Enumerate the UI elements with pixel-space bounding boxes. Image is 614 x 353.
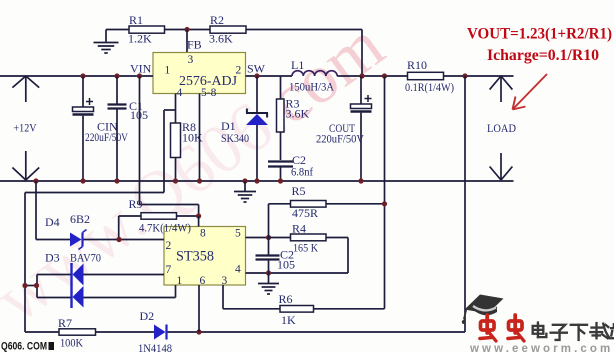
regulator U1 2576-ADJ — [153, 53, 246, 100]
svg-text:100K: 100K — [60, 336, 83, 350]
LOAD top arrow — [490, 76, 513, 102]
svg-text:1K: 1K — [281, 313, 296, 327]
resistor R8 — [171, 120, 204, 158]
wire R7 to D2 — [96, 331, 155, 333]
svg-text:D4: D4 — [45, 215, 60, 229]
wire +12V rail to VIN — [0, 75, 153, 77]
label LOAD — [487, 121, 516, 135]
svg-text:D3: D3 — [45, 251, 60, 265]
wire pin6 down — [198, 285, 200, 332]
wire ground to R1 — [106, 29, 129, 31]
resistor R3 — [277, 76, 310, 160]
capacitor C1 — [108, 76, 149, 181]
watermark Q606 — [1, 341, 54, 353]
svg-text:R4: R4 — [292, 222, 306, 236]
wire output sense line — [168, 76, 466, 332]
wire R1 to FB node — [165, 29, 211, 31]
wire pin5 — [246, 237, 269, 239]
node bus COUT bottom — [358, 178, 363, 183]
node sense branch top — [382, 73, 387, 78]
wire R4 loop — [269, 238, 349, 274]
wire R5 left — [269, 204, 291, 238]
wire R10 to LOAD — [444, 75, 514, 77]
resistor R9 — [129, 197, 192, 235]
diode D3 BAV70 — [45, 251, 101, 309]
capacitor COUT — [316, 76, 372, 181]
label FB — [187, 38, 202, 52]
svg-text:Q606. COM: Q606. COM — [1, 341, 47, 353]
svg-text:R10: R10 — [407, 58, 427, 72]
wire R8 to ground bus — [175, 158, 177, 182]
node bus D1 bottom — [254, 178, 259, 183]
svg-text:www.eeworm.com: www.eeworm.com — [469, 343, 613, 353]
wire pin8 supply branch — [163, 110, 165, 193]
svg-text:4.7K(1/4W): 4.7K(1/4W) — [139, 221, 191, 235]
node B pin4 — [266, 270, 271, 275]
wire D4 to pin2 — [84, 239, 165, 241]
svg-text:R6: R6 — [279, 292, 293, 306]
svg-text:165 K: 165 K — [293, 241, 318, 255]
node bus ground stub — [242, 178, 247, 183]
node bus CIN bottom — [80, 178, 85, 183]
svg-text:R5: R5 — [292, 184, 306, 198]
wire ground bus — [0, 180, 514, 182]
node D4 R9 junction — [116, 237, 121, 242]
wire D3 to pin1 — [84, 285, 176, 298]
wire bus to D4 — [36, 181, 70, 240]
svg-text:3.6K: 3.6K — [286, 107, 310, 121]
logo chongchong char1 — [480, 315, 496, 341]
wire pin4 stub — [164, 109, 176, 111]
op-amp U2 ST358 — [164, 227, 246, 288]
svg-text:1N4148: 1N4148 — [138, 341, 172, 353]
wire VIN to pin8 supply — [140, 76, 199, 216]
wire D3 left upper — [37, 275, 71, 298]
wire R9 right — [177, 215, 199, 217]
node bus +12V bottom — [33, 178, 38, 183]
svg-text:3.6K: 3.6K — [209, 32, 233, 46]
capacitor C2 snubber — [268, 153, 313, 181]
LOAD bottom arrow — [490, 153, 513, 180]
node D3 link right — [34, 283, 39, 288]
svg-text:1: 1 — [165, 65, 171, 77]
wire R5 right — [326, 203, 385, 205]
logo graduation cap — [462, 295, 504, 325]
ground (top-left) — [94, 30, 119, 54]
red pointer arrow — [513, 74, 548, 110]
logo site name — [533, 323, 614, 340]
svg-text:R1: R1 — [129, 13, 143, 27]
wire FB down to pin3 — [186, 30, 188, 54]
svg-text:L1: L1 — [291, 58, 304, 72]
node COUT top — [359, 73, 364, 78]
resistor R7 — [25, 316, 96, 350]
wire R2 to output node — [246, 30, 362, 77]
logo url — [469, 343, 613, 353]
svg-text:3: 3 — [188, 54, 194, 66]
resistor R2 — [209, 13, 246, 46]
svg-text:R9: R9 — [129, 197, 143, 211]
svg-text:6: 6 — [200, 275, 206, 287]
svg-text:0.1R(1/4W): 0.1R(1/4W) — [405, 80, 454, 94]
wire D3 link — [25, 285, 37, 287]
svg-text:R7: R7 — [58, 316, 72, 330]
watermark pink diagonal — [0, 7, 398, 338]
svg-text:1.2K: 1.2K — [128, 32, 152, 46]
wire pin4 down — [175, 94, 177, 124]
svg-text:1: 1 — [177, 275, 183, 287]
node C1 top — [114, 73, 119, 78]
wire pin3 down — [223, 285, 280, 309]
node bus pin5-8 bottom — [197, 178, 202, 183]
capacitor C2 105 — [256, 238, 296, 284]
wire R9 left — [119, 216, 141, 240]
label VIN — [130, 62, 152, 76]
svg-text:150uH/3A: 150uH/3A — [289, 80, 334, 94]
node output junction — [462, 73, 467, 78]
node R9 pin8 junction — [196, 213, 201, 218]
resistor R1 — [128, 13, 165, 46]
wire L1 to R10 — [337, 75, 407, 77]
svg-text:6.8nf: 6.8nf — [291, 165, 313, 179]
ground (middle) — [234, 181, 256, 202]
svg-text:105: 105 — [277, 258, 295, 272]
wire SW to L1 — [246, 75, 293, 77]
formula VOUT — [467, 26, 612, 43]
diode D2 1N4148 — [138, 309, 172, 353]
label +12V — [14, 121, 37, 135]
wire feedback line — [384, 76, 386, 309]
wire R6 right — [314, 308, 385, 310]
ground (below C2) — [258, 284, 279, 295]
svg-text:FB: FB — [187, 38, 202, 52]
svg-text:SW: SW — [247, 62, 266, 76]
node D3 link left — [22, 283, 27, 288]
wire pin5-8 to ground bus — [199, 94, 201, 182]
svg-text:220uF/50V: 220uF/50V — [316, 132, 364, 146]
node bus C2 bottom — [278, 178, 283, 183]
svg-text:VIN: VIN — [130, 62, 152, 76]
svg-text:2576-ADJ: 2576-ADJ — [179, 74, 238, 89]
node bus C1 bottom — [114, 178, 119, 183]
svg-text:+12V: +12V — [14, 121, 37, 135]
node CIN top — [80, 73, 85, 78]
resistor R5 — [291, 184, 327, 220]
svg-text:VOUT=1.23(1+R2/R1): VOUT=1.23(1+R2/R1) — [467, 26, 612, 43]
node SW junction — [254, 73, 259, 78]
label SW — [247, 62, 266, 76]
svg-text:475R: 475R — [292, 206, 318, 220]
svg-text:8: 8 — [200, 228, 206, 240]
node FB junction — [184, 27, 189, 32]
wire pin4 st358 — [246, 272, 269, 274]
formula Icharge — [487, 47, 599, 64]
svg-text:7: 7 — [166, 264, 172, 276]
+12V source top arrow — [12, 76, 39, 102]
svg-text:4: 4 — [235, 264, 241, 276]
svg-text:LOAD: LOAD — [487, 121, 516, 135]
diode D4 6B2 — [45, 212, 90, 250]
+12V source bottom arrow — [12, 151, 39, 180]
svg-text:2: 2 — [166, 240, 172, 252]
wire lower left rail — [25, 193, 164, 333]
svg-text:5: 5 — [235, 228, 241, 240]
svg-text:6B2: 6B2 — [70, 212, 90, 226]
resistor R10 — [405, 58, 454, 94]
node VIN junction — [137, 73, 142, 78]
node pin6 bottom junction — [196, 329, 201, 334]
wire D3 left lower — [37, 297, 71, 299]
inductor L1 — [289, 58, 337, 94]
resistor R4 — [269, 222, 327, 255]
svg-text:220uF/50V: 220uF/50V — [85, 130, 128, 144]
wire D3 to pin7 — [84, 274, 165, 276]
svg-text:ST358: ST358 — [176, 249, 214, 265]
diode D1 SK340 — [221, 76, 268, 181]
svg-text:R2: R2 — [210, 13, 224, 27]
svg-text:SK340: SK340 — [221, 131, 249, 145]
node A pin5 — [266, 235, 271, 240]
svg-text:Icharge=0.1/R10: Icharge=0.1/R10 — [487, 47, 599, 64]
node R5 sense junction — [382, 201, 387, 206]
node bus R8 bottom — [173, 178, 178, 183]
resistor R6 — [279, 292, 314, 327]
capacitor CIN — [73, 76, 129, 181]
svg-text:BAV70: BAV70 — [70, 251, 101, 265]
wire pin8 down — [198, 216, 200, 227]
logo chongchong char2 — [508, 315, 524, 341]
svg-text:D2: D2 — [140, 309, 155, 323]
